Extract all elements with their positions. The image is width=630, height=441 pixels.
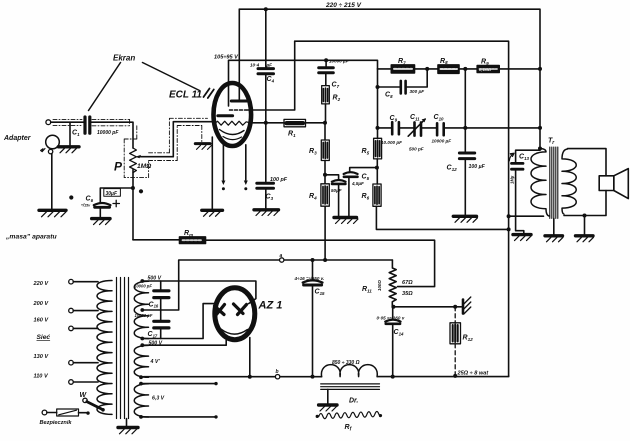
heater pin wires (221, 145, 247, 191)
shield end marks (204, 89, 214, 99)
resistor R11 tapped (389, 260, 396, 306)
wire: rectifier output to B+ line (249, 338, 251, 377)
mains terminal 220V (69, 279, 74, 284)
capacitor C3 100pF (257, 183, 274, 209)
ground under Tr core (545, 236, 563, 242)
svg-text:4,5µF: 4,5µF (351, 181, 364, 186)
svg-text:10000 pF: 10000 pF (135, 313, 153, 318)
wire: pot bottom down (132, 170, 134, 240)
wire: secondary to speaker (564, 149, 606, 216)
node: C15 junction (311, 258, 315, 262)
output transformer Tr primary (509, 149, 550, 217)
plug tail arrow (41, 149, 45, 152)
svg-text:ECL 11: ECL 11 (169, 90, 202, 101)
node: R11 bottom (391, 305, 395, 309)
svg-text:1MΩ: 1MΩ (137, 163, 152, 170)
node: secondary bottom ground tap (583, 214, 587, 218)
fuse Bezpiecznik (42, 409, 90, 416)
svg-text:10000 pF: 10000 pF (97, 130, 119, 136)
svg-text:10·4: 10·4 (250, 63, 260, 68)
resistor R2 (322, 86, 330, 121)
ground under choke (319, 405, 337, 411)
node: 4V bottom (139, 375, 143, 379)
wire: B+ bottom line (141, 376, 509, 377)
adapter plug circle (46, 135, 60, 149)
node: R1 to dropping chain (323, 121, 327, 125)
svg-text:30µF: 30µF (106, 191, 118, 197)
core ground stem (553, 218, 555, 234)
node: C15 bottom (311, 375, 315, 379)
resistor R8 (438, 65, 477, 73)
core ground stem (126, 419, 128, 427)
ground under C12 (453, 216, 477, 222)
output transformer secondary (562, 149, 576, 214)
cathode ground stem (211, 137, 213, 209)
resistor R4 (321, 184, 329, 260)
mains terminal 200V (69, 308, 74, 313)
svg-text:ⁿ/15v: ⁿ/15v (81, 203, 91, 208)
capacitor C10 (437, 123, 444, 135)
svg-text:110 V: 110 V (34, 374, 49, 380)
svg-text:220 V: 220 V (33, 281, 50, 287)
svg-text:10000 pF: 10000 pF (134, 283, 152, 288)
resistor R3 (321, 125, 329, 184)
capacitor C9 (392, 122, 399, 134)
svg-text:220 ÷ 215 V: 220 ÷ 215 V (325, 2, 362, 9)
ground under C5 (334, 218, 358, 224)
svg-text:160 V: 160 V (34, 318, 50, 324)
resistor R1 (284, 119, 325, 126)
svg-text:Sieć: Sieć (37, 334, 51, 341)
svg-text:10.000 pF: 10.000 pF (381, 140, 402, 145)
svg-text:105÷95 V: 105÷95 V (214, 55, 239, 61)
ground under C13 (513, 235, 531, 241)
svg-text:100 pF: 100 pF (270, 177, 288, 183)
svg-text:b: b (276, 369, 279, 375)
resistor row R7 (378, 65, 439, 73)
node: cap line at plate rail (538, 126, 542, 130)
svg-text:10000 µF: 10000 µF (432, 139, 452, 144)
svg-text:200 V: 200 V (33, 301, 50, 307)
svg-text:P: P (114, 160, 123, 174)
svg-text:0,1MΩ: 0,1MΩ (479, 67, 492, 72)
resistor R6 (373, 184, 509, 229)
capacitor C8 300pF (376, 69, 428, 94)
wire: second rail B+ screen feed (295, 41, 509, 376)
wire: right dropping column (377, 69, 379, 138)
svg-text:6,3 V: 6,3 V (152, 396, 165, 402)
potentiometer P 1M (130, 148, 137, 173)
wire: coupling cap line (378, 127, 541, 129)
node: R12 top (453, 305, 457, 309)
svg-text:130 V: 130 V (34, 354, 50, 360)
node: R9 to plate rail drop (538, 67, 542, 71)
wire: triode plate line to R1 (252, 122, 285, 124)
tube AZ1 envelope (215, 288, 255, 340)
node: HV top (140, 279, 144, 283)
node: pot/C6 junction (131, 186, 135, 190)
mains terminal 110V (69, 380, 74, 385)
svg-text:100 µF: 100 µF (469, 164, 486, 170)
svg-text:1Mµ: 1Mµ (510, 175, 515, 184)
node: R8/R9 junction (463, 67, 467, 71)
wire: pentode plate wire into ECL11 (238, 9, 240, 100)
6.3V heater winding (134, 384, 148, 417)
node: column / C5 junction (375, 166, 379, 170)
node: AZ1 drop junction (248, 375, 252, 379)
wire: R11 bottom to chassis (393, 306, 461, 308)
capacitor C14 electrolytic (385, 307, 400, 379)
node: 4V top (140, 343, 144, 347)
4V filament winding (134, 345, 148, 377)
terminal a (280, 258, 284, 262)
node: primary bottom to B+ (507, 214, 511, 218)
capacitor C5 4.5uF (344, 168, 377, 217)
node: dropping column to bus (323, 258, 327, 262)
ground under input (39, 210, 66, 217)
cathode arcs (220, 130, 245, 135)
ground under core (118, 428, 138, 434)
capacitor C17 (154, 310, 169, 339)
switch W (83, 398, 87, 402)
svg-text:4 V’: 4 V’ (150, 359, 161, 365)
chassis symbol (463, 297, 471, 314)
triode plate bar (218, 114, 233, 117)
AZ1 left anode (215, 305, 225, 316)
node: C4/C3 junction with triode plate line (264, 121, 268, 125)
svg-text:300 pF: 300 pF (410, 89, 425, 94)
svg-text:67Ω: 67Ω (402, 280, 413, 286)
resistor R12 dashed lead (450, 307, 461, 378)
svg-text:35Ω: 35Ω (402, 291, 413, 297)
input terminal top (46, 120, 51, 125)
resistor Rf wavy (316, 411, 383, 418)
svg-text:50µF: 50µF (331, 188, 342, 193)
svg-text:4÷16 =ⁿ/650 v.: 4÷16 =ⁿ/650 v. (294, 276, 325, 281)
AZ1 filament arc (221, 329, 248, 334)
pot wiper arrow (135, 122, 213, 159)
node: feed line to B+ column (507, 227, 511, 231)
power transformer primary winding (97, 281, 112, 415)
terminal b (275, 375, 279, 379)
pentode grid2 dashed (230, 109, 247, 111)
capacitor C1 (85, 117, 90, 133)
svg-text:Dr.: Dr. (349, 397, 358, 404)
svg-text:Bezpiecznik: Bezpiecznik (40, 420, 73, 426)
wire: HV bottom end to AZ1 left anode (142, 304, 215, 339)
capacitor C6a 50uF (325, 175, 346, 217)
mains terminal 160V (69, 326, 74, 331)
capacitor C11 trimmer (408, 118, 426, 136)
svg-text:„masa” aparatu: „masa” aparatu (5, 234, 57, 241)
node: HV centre tap (140, 308, 144, 312)
grid wavy line (214, 121, 251, 125)
svg-text:µF: µF (266, 63, 273, 68)
resistor Rm (180, 237, 435, 287)
svg-text:Ekran: Ekran (113, 54, 135, 63)
ground under cathode (202, 210, 223, 216)
node: HV bottom (140, 337, 144, 341)
wire: screen supply line 105-95V (229, 60, 378, 106)
ground under speaker line (576, 236, 594, 242)
capacitor C4 (258, 9, 274, 181)
Ekran pointer lines (89, 63, 200, 111)
wire: wiper return line (133, 239, 180, 241)
pentode plate bar (231, 100, 247, 103)
input terminal bottom (48, 149, 52, 153)
capacitor C12 (459, 69, 474, 215)
tube ECL11 envelope (214, 83, 252, 146)
svg-text:100Ω: 100Ω (377, 280, 382, 291)
svg-text:10000 µF: 10000 µF (329, 58, 349, 63)
wire: input signal to C1 (51, 121, 84, 123)
node: primary top (538, 147, 542, 151)
output transformer core (550, 147, 558, 218)
svg-text:Adapter: Adapter (3, 135, 32, 142)
node: left column / C6a junction (323, 173, 327, 177)
capacitor C16 (154, 281, 169, 310)
svg-text:25Ω ÷ 8 wat: 25Ω ÷ 8 wat (457, 370, 490, 376)
svg-text:0·05 =ⁿ/160 v: 0·05 =ⁿ/160 v (377, 315, 405, 320)
node: cap line / C12 column (463, 126, 467, 130)
svg-text:850 ÷ 330 Ω: 850 ÷ 330 Ω (332, 360, 360, 366)
shield dash-dot around input wire (53, 118, 208, 177)
capacitor C13 (509, 150, 540, 233)
mains terminal 130V (69, 360, 74, 365)
ground under C3 (254, 210, 279, 216)
wire: +220V plate rail top (239, 9, 540, 148)
node: rail junction to C4 (264, 7, 268, 11)
svg-text:500 V: 500 V (148, 275, 162, 281)
transformer core (117, 278, 129, 419)
wire: 4V winding to AZ1 filament (142, 340, 226, 345)
wire: HV centre tap to bus (142, 260, 392, 310)
ground stem at C1 (69, 122, 71, 146)
resistor R9 (477, 66, 540, 73)
svg-text:500 pF: 500 pF (409, 147, 424, 152)
AZ1 right anode (234, 304, 247, 315)
ground for shield (195, 144, 211, 150)
wire: 6.3V top stub (141, 383, 215, 385)
capacitor C7 (319, 58, 334, 85)
svg-text:500 V: 500 V (149, 340, 163, 346)
resistor R5 (374, 138, 382, 184)
choke Dr (321, 365, 380, 404)
ground under C1 (58, 147, 79, 153)
wire: HV top end to AZ1 right anode (142, 281, 256, 304)
wire: C1 to pot (91, 122, 133, 148)
capacitor C6 30uF electrolytic (94, 188, 133, 218)
node: column / cap line (376, 126, 380, 130)
wire: pentode grid2 wire to rail (247, 41, 295, 110)
ground under C6 (92, 219, 110, 225)
speaker (599, 169, 628, 199)
svg-text:AZ 1: AZ 1 (258, 300, 283, 312)
wire: lower terminal to chassis (51, 154, 53, 210)
wire: 6.3V bottom stub (141, 416, 215, 418)
HV secondary winding (134, 281, 148, 338)
capacitor C15 electrolytic (303, 260, 323, 377)
node: R7/R8 junction (425, 67, 429, 71)
svg-text:a: a (280, 253, 283, 259)
